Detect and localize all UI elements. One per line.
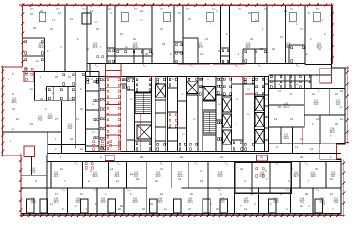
svg-text:19: 19 bbox=[220, 156, 223, 159]
svg-text:25: 25 bbox=[190, 193, 193, 196]
dimension line left upper bbox=[22, 5, 24, 67]
outer wall (black portion right/bottom) bbox=[21, 6, 345, 214]
svg-text:24.8: 24.8 bbox=[38, 46, 44, 49]
svg-text:20: 20 bbox=[188, 18, 191, 21]
svg-text:29: 29 bbox=[33, 27, 36, 30]
svg-text:23: 23 bbox=[50, 28, 53, 31]
wall x=47.7 bbox=[47, 132, 49, 155]
dimension line right upper bbox=[331, 5, 333, 64]
svg-text:27: 27 bbox=[160, 168, 163, 171]
corridor top wall bbox=[47, 152, 341, 154]
red shaft bottom-right bbox=[320, 144, 337, 160]
bottom band top wall bbox=[47, 161, 341, 163]
svg-text:15: 15 bbox=[133, 38, 136, 41]
dimension line right lower bbox=[343, 159, 345, 215]
dimension line bottom bbox=[21, 214, 344, 216]
red vertical mid-right bbox=[302, 128, 304, 145]
wall y=88.5 bbox=[269, 88, 346, 90]
red step bottom-left bbox=[3, 154, 21, 156]
wall x=75.2 bbox=[74, 72, 76, 149]
toilet fixtures red bbox=[107, 79, 120, 150]
svg-text:16: 16 bbox=[290, 118, 293, 121]
svg-text:16: 16 bbox=[68, 76, 71, 79]
svg-text:30.1: 30.1 bbox=[245, 46, 251, 49]
svg-text:13: 13 bbox=[244, 208, 247, 211]
wall y=105 bbox=[269, 104, 305, 106]
wall top-band bottom left deep bbox=[23, 71, 87, 73]
wall top-band bottom right stub bbox=[305, 63, 332, 65]
core left col top bbox=[85, 71, 99, 73]
light partition top band bbox=[285, 6, 287, 64]
svg-text:19: 19 bbox=[140, 10, 143, 13]
svg-text:25: 25 bbox=[272, 48, 275, 51]
svg-text:16: 16 bbox=[300, 205, 303, 208]
svg-text:13: 13 bbox=[340, 118, 343, 121]
red corner crosses bbox=[21, 3, 25, 7]
svg-text:26.1: 26.1 bbox=[114, 175, 120, 178]
svg-text:21: 21 bbox=[160, 28, 163, 31]
svg-text:20: 20 bbox=[142, 208, 145, 211]
svg-text:28: 28 bbox=[136, 178, 139, 181]
svg-text:12.1: 12.1 bbox=[313, 103, 319, 106]
svg-text:21: 21 bbox=[60, 168, 63, 171]
core outline bbox=[85, 77, 268, 152]
svg-text:6.4: 6.4 bbox=[31, 171, 35, 174]
svg-text:19: 19 bbox=[40, 98, 43, 101]
svg-text:10.6: 10.6 bbox=[100, 201, 106, 204]
svg-text:13: 13 bbox=[250, 193, 253, 196]
lobby threshold bbox=[178, 100, 187, 102]
stair S2 bbox=[203, 112, 216, 133]
toilet block red column bbox=[106, 77, 121, 151]
elevator bank A1 bbox=[222, 98, 231, 112]
wall x=292.4 bbox=[291, 127, 293, 153]
wall x=208.1 bbox=[207, 162, 209, 214]
columns top band bbox=[39, 12, 46, 22]
svg-text:23: 23 bbox=[12, 108, 15, 111]
toilet partitions right of core bbox=[274, 75, 276, 89]
bottom band upper partitions bbox=[50, 162, 52, 189]
svg-text:48.6: 48.6 bbox=[11, 101, 17, 104]
subcell fixtures bbox=[117, 51, 151, 53]
svg-text:10.8: 10.8 bbox=[75, 201, 81, 204]
wall y=100.7 bbox=[35, 100, 76, 102]
bottom band lower partitions bbox=[66, 188, 68, 214]
svg-text:11.2: 11.2 bbox=[53, 201, 59, 204]
minor wall y=38 bbox=[23, 37, 45, 39]
svg-text:17: 17 bbox=[55, 193, 58, 196]
wall y=127 bbox=[269, 126, 305, 128]
left col specks bbox=[94, 81, 99, 83]
red escape line stair bbox=[140, 114, 142, 152]
svg-text:25: 25 bbox=[315, 168, 318, 171]
svg-text:26.9: 26.9 bbox=[285, 46, 291, 49]
door arcs bottom corridor bbox=[75, 162, 78, 165]
subcell bbox=[243, 48, 267, 50]
core horizontal cell walls bbox=[85, 90, 99, 92]
svg-text:22: 22 bbox=[80, 108, 83, 111]
svg-text:19: 19 bbox=[200, 180, 203, 183]
svg-text:28.3: 28.3 bbox=[92, 175, 98, 178]
elevator E1 bbox=[156, 84, 166, 97]
svg-text:11.3: 11.3 bbox=[329, 131, 335, 134]
elevator bank A3 bbox=[222, 130, 231, 144]
cells below E1 bbox=[157, 143, 166, 150]
dimension ticks bottom bbox=[22, 214, 340, 217]
door arcs top corridor bbox=[95, 64, 98, 67]
svg-text:21: 21 bbox=[178, 12, 181, 15]
svg-text:12.4: 12.4 bbox=[187, 201, 193, 204]
wall top-band bottom bbox=[87, 63, 305, 65]
svg-text:19: 19 bbox=[160, 193, 163, 196]
elevator bank B2 bbox=[255, 113, 264, 127]
svg-text:22: 22 bbox=[150, 203, 153, 206]
red marks shaft top-left bbox=[25, 68, 33, 73]
dimension line right middle bbox=[346, 68, 348, 143]
svg-text:18.2: 18.2 bbox=[47, 117, 53, 120]
svg-text:21: 21 bbox=[316, 118, 319, 121]
svg-text:52.6: 52.6 bbox=[197, 46, 203, 49]
middle right top wall bbox=[269, 74, 332, 76]
cells above E1 bbox=[157, 78, 165, 83]
svg-text:20: 20 bbox=[155, 180, 158, 183]
svg-text:16.8: 16.8 bbox=[283, 137, 289, 140]
svg-text:10: 10 bbox=[216, 208, 219, 211]
svg-text:21: 21 bbox=[205, 38, 208, 41]
wall x=146.7 bbox=[146, 162, 148, 214]
wall x=47 bbox=[46, 155, 48, 214]
red corridor line b bbox=[213, 63, 246, 65]
svg-text:27: 27 bbox=[188, 208, 191, 211]
upper marks bbox=[63, 74, 84, 85]
red corridor line a bbox=[178, 63, 210, 65]
svg-text:27: 27 bbox=[55, 118, 58, 121]
svg-text:15: 15 bbox=[300, 138, 303, 141]
wall x=304.3 bbox=[303, 89, 305, 128]
svg-text:14: 14 bbox=[310, 148, 313, 151]
svg-text:21: 21 bbox=[178, 178, 181, 181]
svg-text:7.2: 7.2 bbox=[38, 119, 42, 122]
minor wall y=56 bbox=[23, 55, 45, 57]
column x=86 bbox=[82, 13, 91, 24]
red mark bank B bbox=[245, 93, 255, 95]
wall y=144.6 bbox=[48, 144, 86, 146]
core bottom red fixtures bbox=[93, 141, 120, 150]
svg-text:10.9: 10.9 bbox=[30, 201, 36, 204]
toilet block vestibule in corridor bbox=[105, 64, 107, 77]
dimension ticks top bbox=[21, 3, 327, 6]
svg-text:24.7: 24.7 bbox=[293, 175, 299, 178]
svg-text:26: 26 bbox=[180, 156, 183, 159]
red fixtures bottom band left bbox=[85, 163, 93, 169]
svg-text:20: 20 bbox=[96, 28, 99, 31]
elevator bank B3 bbox=[255, 129, 264, 143]
red shaft top-left bbox=[24, 72, 33, 82]
svg-text:13: 13 bbox=[58, 12, 61, 15]
elevator bank B1 bbox=[255, 97, 264, 111]
svg-text:12.2: 12.2 bbox=[219, 201, 225, 204]
svg-text:12.6: 12.6 bbox=[273, 201, 279, 204]
wall y=86.5 bbox=[47, 86, 76, 88]
elevator under stair1 bbox=[137, 125, 151, 139]
svg-text:15: 15 bbox=[80, 148, 83, 151]
double wall toilets bbox=[289, 75, 291, 89]
svg-text:21: 21 bbox=[70, 18, 73, 21]
svg-text:25: 25 bbox=[118, 208, 121, 211]
svg-text:8.1: 8.1 bbox=[54, 175, 58, 178]
svg-text:25: 25 bbox=[260, 48, 263, 51]
svg-text:wc: wc bbox=[278, 83, 281, 86]
svg-text:18: 18 bbox=[130, 173, 133, 176]
toilet block marks bbox=[48, 89, 74, 100]
svg-text:14: 14 bbox=[200, 53, 203, 56]
svg-text:10.2: 10.2 bbox=[155, 175, 161, 178]
bottom band middle wall (with opening) bbox=[21, 187, 147, 189]
red fixture near wall bbox=[97, 56, 104, 58]
fixture column B bbox=[122, 79, 126, 88]
svg-text:29: 29 bbox=[300, 156, 303, 159]
dimension line left lower bbox=[20, 155, 22, 215]
svg-text:23: 23 bbox=[40, 10, 43, 13]
svg-text:30.2: 30.2 bbox=[217, 175, 223, 178]
stair S1 bbox=[135, 93, 151, 114]
svg-text:15: 15 bbox=[318, 48, 321, 51]
svg-text:26: 26 bbox=[55, 76, 58, 79]
svg-text:22: 22 bbox=[335, 123, 338, 126]
svg-text:12.0: 12.0 bbox=[132, 201, 138, 204]
svg-text:13: 13 bbox=[120, 33, 123, 36]
svg-text:17: 17 bbox=[278, 90, 281, 93]
svg-text:13: 13 bbox=[295, 146, 298, 149]
svg-text:22.4: 22.4 bbox=[283, 106, 289, 109]
svg-text:29: 29 bbox=[145, 53, 148, 56]
svg-text:28: 28 bbox=[305, 193, 308, 196]
core top-left fixtures bbox=[87, 78, 98, 83]
red fixtures storage bbox=[256, 168, 264, 177]
dimension line left middle bbox=[2, 67, 4, 155]
svg-text:31.2: 31.2 bbox=[92, 46, 98, 49]
red line corridor top bbox=[84, 152, 269, 154]
svg-text:25: 25 bbox=[278, 106, 281, 109]
svg-text:28: 28 bbox=[140, 156, 143, 159]
svg-text:14: 14 bbox=[274, 118, 277, 121]
svg-text:22.0: 22.0 bbox=[259, 175, 265, 178]
outer boundary red portions bbox=[23, 5, 332, 7]
svg-text:21: 21 bbox=[312, 93, 315, 96]
big storage room bbox=[235, 162, 292, 193]
svg-text:17: 17 bbox=[300, 28, 303, 31]
svg-text:15: 15 bbox=[330, 178, 333, 181]
svg-text:14: 14 bbox=[90, 10, 93, 13]
red lobby boxes on corridor bbox=[105, 155, 114, 160]
svg-text:9.1: 9.1 bbox=[300, 201, 304, 204]
subcell bbox=[133, 49, 135, 64]
wall y=132 bbox=[3, 131, 62, 133]
svg-text:17: 17 bbox=[76, 118, 79, 121]
elevator E3b bbox=[203, 87, 215, 100]
corridor partition bbox=[89, 64, 91, 77]
subcell bbox=[197, 38, 199, 64]
svg-text:23: 23 bbox=[240, 168, 243, 171]
svg-text:18.9: 18.9 bbox=[310, 175, 316, 178]
right toilet fixtures bbox=[270, 76, 311, 88]
svg-text:15: 15 bbox=[16, 118, 19, 121]
svg-text:14: 14 bbox=[110, 168, 113, 171]
door arcs bottom middle wall bbox=[62, 188, 65, 191]
subcell bbox=[288, 45, 290, 64]
radiators bbox=[27, 199, 35, 213]
svg-text:10: 10 bbox=[86, 48, 89, 51]
svg-text:20: 20 bbox=[250, 38, 253, 41]
svg-text:20: 20 bbox=[218, 50, 221, 53]
svg-text:27: 27 bbox=[280, 36, 283, 39]
svg-text:13: 13 bbox=[116, 180, 119, 183]
red shaft top-right bbox=[320, 68, 332, 83]
svg-text:13.1: 13.1 bbox=[157, 201, 163, 204]
shaft strip cells bbox=[107, 47, 115, 49]
svg-text:18: 18 bbox=[70, 138, 73, 141]
svg-text:9.4: 9.4 bbox=[68, 127, 72, 130]
svg-text:9.8: 9.8 bbox=[334, 201, 338, 204]
top-left block fixtures bbox=[25, 41, 43, 54]
elevator E3a bbox=[187, 81, 199, 93]
red shaft bottom-left bbox=[24, 146, 35, 157]
wall y=115 bbox=[304, 114, 345, 116]
dimension line top bbox=[19, 4, 334, 6]
fixture column A bbox=[100, 79, 105, 149]
svg-text:15: 15 bbox=[30, 123, 33, 126]
svg-text:13: 13 bbox=[322, 203, 325, 206]
svg-text:10: 10 bbox=[260, 156, 263, 159]
wall x=329.8 bbox=[329, 89, 331, 116]
svg-text:22: 22 bbox=[284, 10, 287, 13]
svg-text:25: 25 bbox=[248, 12, 251, 15]
svg-text:24: 24 bbox=[162, 43, 165, 46]
svg-text:11.9: 11.9 bbox=[243, 201, 249, 204]
top band partitions bbox=[44, 38, 46, 72]
wall x=34.5 bbox=[34, 72, 36, 101]
svg-text:28.4: 28.4 bbox=[132, 46, 138, 49]
svg-text:10: 10 bbox=[335, 93, 338, 96]
red shaft fixtures mid core bbox=[169, 114, 177, 127]
left block wall bbox=[21, 174, 47, 176]
elevator bank A2 bbox=[222, 114, 231, 128]
wall y=143.8 bbox=[269, 143, 337, 145]
red shaft marks bbox=[26, 73, 33, 80]
red step top-left bbox=[3, 66, 23, 68]
core vertical partitions bbox=[98, 77, 100, 152]
svg-text:13: 13 bbox=[50, 203, 53, 206]
wall x=61.5 lower bbox=[61, 101, 63, 154]
svg-text:24: 24 bbox=[340, 90, 343, 93]
svg-text:10: 10 bbox=[330, 193, 333, 196]
svg-text:10: 10 bbox=[80, 193, 83, 196]
red dashes core top bbox=[106, 76, 121, 78]
svg-text:wc: wc bbox=[296, 83, 299, 86]
svg-text:26: 26 bbox=[30, 13, 33, 16]
